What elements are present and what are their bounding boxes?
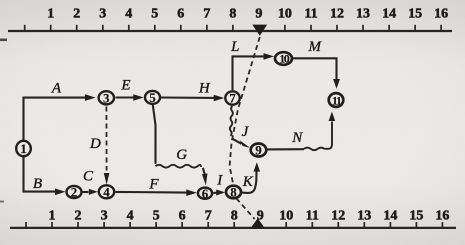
svg-text:6: 6 — [202, 186, 209, 201]
svg-text:5: 5 — [153, 208, 160, 223]
svg-text:1: 1 — [47, 6, 54, 21]
svg-text:C: C — [83, 168, 94, 184]
svg-text:11: 11 — [332, 93, 342, 107]
svg-text:8: 8 — [231, 208, 238, 223]
svg-text:8: 8 — [230, 185, 237, 200]
svg-text:1: 1 — [20, 141, 27, 156]
svg-text:15: 15 — [408, 6, 422, 21]
svg-text:4: 4 — [127, 208, 134, 223]
svg-text:4: 4 — [125, 6, 132, 21]
svg-text:16: 16 — [435, 208, 449, 223]
svg-text:6: 6 — [179, 208, 186, 223]
svg-text:F: F — [148, 176, 159, 192]
svg-text:11: 11 — [306, 208, 319, 223]
svg-text:12: 12 — [330, 6, 344, 21]
svg-text:14: 14 — [382, 6, 396, 21]
svg-text:13: 13 — [357, 208, 371, 223]
svg-text:K: K — [242, 174, 254, 190]
svg-text:3: 3 — [101, 208, 108, 223]
svg-text:7: 7 — [229, 91, 236, 106]
svg-text:6: 6 — [177, 6, 184, 21]
svg-text:13: 13 — [356, 6, 370, 21]
svg-text:10: 10 — [279, 208, 293, 223]
svg-text:11: 11 — [304, 6, 317, 21]
svg-text:D: D — [89, 136, 101, 152]
svg-text:M: M — [308, 39, 323, 55]
svg-text:12: 12 — [331, 208, 345, 223]
svg-text:14: 14 — [383, 208, 397, 223]
svg-text:G: G — [176, 147, 187, 163]
svg-text:3: 3 — [99, 6, 106, 21]
svg-text:4: 4 — [103, 185, 110, 200]
svg-text:1: 1 — [49, 208, 56, 223]
svg-text:10: 10 — [279, 52, 290, 66]
svg-text:5: 5 — [151, 6, 158, 21]
svg-text:E: E — [120, 78, 130, 94]
svg-text:2: 2 — [73, 6, 80, 21]
svg-text:2: 2 — [71, 185, 78, 200]
svg-text:10: 10 — [278, 6, 292, 21]
svg-text:A: A — [51, 80, 62, 96]
svg-text:N: N — [291, 130, 303, 146]
svg-text:16: 16 — [434, 6, 448, 21]
svg-text:9: 9 — [255, 143, 262, 158]
svg-text:3: 3 — [103, 91, 110, 106]
svg-text:B: B — [33, 176, 42, 192]
svg-text:8: 8 — [229, 6, 236, 21]
svg-text:7: 7 — [203, 6, 210, 21]
svg-text:H: H — [198, 80, 211, 96]
svg-text:2: 2 — [75, 208, 82, 223]
svg-text:I: I — [216, 173, 223, 189]
svg-text:15: 15 — [409, 208, 423, 223]
svg-text:5: 5 — [149, 90, 156, 105]
svg-text:9: 9 — [255, 6, 262, 21]
svg-text:L: L — [230, 39, 239, 55]
svg-text:7: 7 — [205, 208, 212, 223]
